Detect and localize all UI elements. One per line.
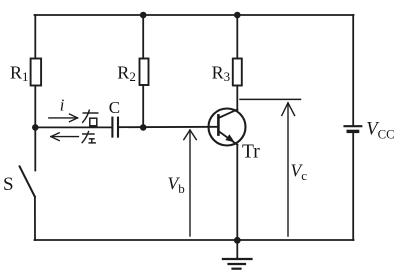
- transistor Tr emitter arrowhead: [226, 135, 233, 141]
- node junction left (base wire tap): [32, 124, 39, 131]
- svg-text:i: i: [60, 95, 65, 114]
- kanji migi (right): [82, 110, 98, 126]
- svg-text:R1: R1: [10, 62, 29, 84]
- svg-text:C: C: [109, 98, 120, 117]
- wire right branch lower: [352, 131, 354, 240]
- wire right branch upper: [352, 15, 354, 126]
- arrow current leftward: [51, 133, 79, 141]
- kanji hidari (left): [82, 131, 96, 143]
- svg-text:Tr: Tr: [242, 142, 260, 163]
- wire R2 branch upper: [142, 15, 144, 59]
- transistor Tr collector diagonal: [218, 109, 237, 118]
- ground symbol: [223, 259, 252, 269]
- node junction R3 top: [234, 12, 241, 19]
- transistor Tr circle: [209, 109, 246, 146]
- svg-text:Vc: Vc: [291, 161, 308, 184]
- wire left branch lower: [34, 197, 36, 240]
- node junction R2 top: [140, 12, 147, 19]
- switch S blade: [20, 166, 35, 196]
- svg-text:R3: R3: [212, 63, 231, 85]
- transistor Tr emitter diagonal: [218, 131, 237, 145]
- wire base horizontal (capacitor to transistor base): [118, 126, 218, 128]
- battery VCC long plate: [345, 125, 362, 127]
- wire bottom rail: [35, 239, 354, 241]
- wire left branch mid: [34, 86, 36, 171]
- resistor R3: [233, 59, 242, 86]
- wire collector node horizontal line: [240, 98, 301, 100]
- svg-text:Vb: Vb: [168, 173, 185, 196]
- wire top rail: [35, 14, 354, 16]
- wire base horizontal (left of capacitor): [35, 126, 112, 128]
- arrow Vc (vertical measurement arrow): [282, 103, 295, 236]
- wire R3 branch upper: [236, 15, 238, 59]
- arrow Vb (vertical measurement arrow): [184, 130, 197, 236]
- capacitor C plates: [111, 118, 113, 137]
- battery VCC short plate: [348, 130, 357, 133]
- ground stub wire: [236, 240, 238, 259]
- wire emitter to bottom rail: [236, 145, 238, 240]
- wire left branch upper: [34, 15, 36, 59]
- resistor R1: [31, 59, 41, 86]
- node junction emitter / ground: [234, 237, 241, 244]
- svg-text:R2: R2: [117, 63, 136, 85]
- svg-text:VCC: VCC: [366, 120, 394, 142]
- wire collector (R3 to transistor): [236, 86, 238, 111]
- node junction R2 bottom: [140, 124, 147, 131]
- arrow current i rightward: [49, 114, 78, 122]
- resistor R2: [140, 59, 149, 86]
- wire R2 branch lower: [142, 85, 144, 127]
- svg-text:S: S: [3, 174, 14, 195]
- transistor Tr base bar: [217, 115, 220, 134]
